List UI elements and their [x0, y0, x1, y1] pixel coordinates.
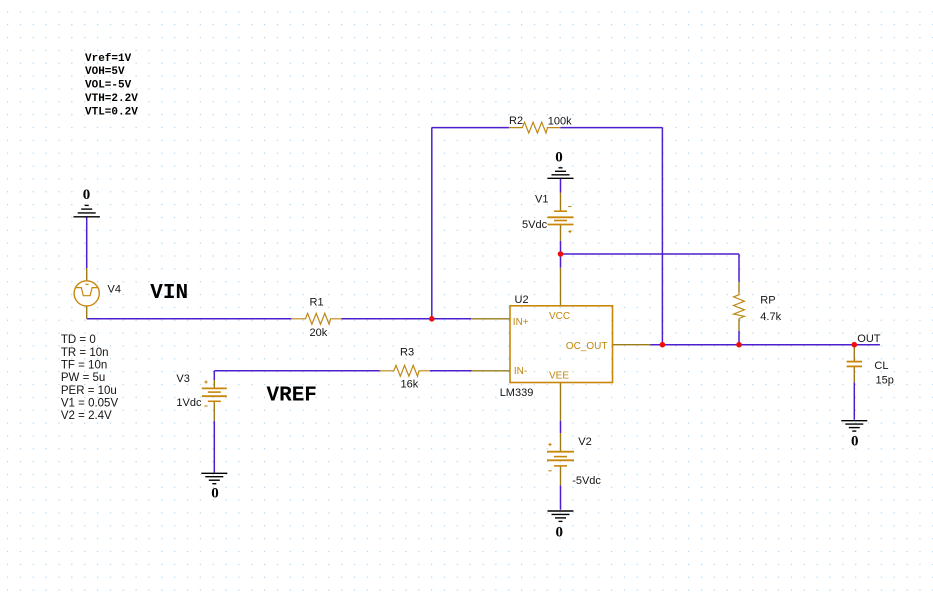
svg-text:15p: 15p: [876, 374, 894, 386]
svg-text:VCC: VCC: [549, 311, 570, 322]
svg-text:PER = 10u: PER = 10u: [61, 385, 117, 397]
svg-text:TF = 10n: TF = 10n: [61, 360, 107, 372]
svg-text:V1: V1: [535, 193, 548, 205]
svg-text:V2 = 2.4V: V2 = 2.4V: [61, 410, 112, 422]
svg-text:4.7k: 4.7k: [760, 311, 781, 323]
svg-text:5Vdc: 5Vdc: [522, 219, 548, 231]
svg-text:VOL=-5V: VOL=-5V: [85, 80, 132, 92]
svg-text:100k: 100k: [548, 115, 572, 127]
svg-text:V4: V4: [108, 284, 121, 296]
svg-text:V2: V2: [578, 436, 591, 448]
svg-text:V3: V3: [176, 373, 189, 385]
svg-text:Vref=1V: Vref=1V: [85, 53, 132, 65]
svg-text:20k: 20k: [310, 327, 328, 339]
svg-text:R1: R1: [310, 296, 324, 308]
svg-text:VIN: VIN: [150, 282, 188, 305]
svg-text:1Vdc: 1Vdc: [176, 397, 202, 409]
svg-text:VTH=2.2V: VTH=2.2V: [85, 93, 138, 105]
svg-text:IN+: IN+: [513, 317, 529, 328]
svg-text:-5Vdc: -5Vdc: [572, 475, 601, 487]
svg-text:0: 0: [555, 149, 563, 165]
svg-text:IN-: IN-: [514, 366, 527, 377]
svg-text:VTL=0.2V: VTL=0.2V: [85, 106, 138, 118]
svg-text:R2: R2: [509, 115, 523, 127]
svg-text:16k: 16k: [401, 378, 419, 390]
svg-text:VEE: VEE: [549, 370, 569, 381]
svg-text:RP: RP: [760, 295, 775, 307]
svg-text:LM339: LM339: [500, 387, 534, 399]
svg-text:OC_OUT: OC_OUT: [566, 341, 608, 352]
svg-text:0: 0: [211, 485, 219, 501]
svg-text:0: 0: [83, 187, 91, 203]
svg-text:TD = 0: TD = 0: [61, 334, 96, 346]
svg-text:0: 0: [851, 434, 859, 450]
svg-text:CL: CL: [874, 360, 888, 372]
svg-text:PW = 5u: PW = 5u: [61, 372, 105, 384]
svg-text:OUT: OUT: [857, 333, 881, 345]
svg-text:R3: R3: [400, 346, 414, 358]
svg-text:0: 0: [556, 525, 564, 541]
svg-text:VREF: VREF: [267, 384, 317, 407]
svg-text:V1 = 0.05V: V1 = 0.05V: [61, 398, 119, 410]
svg-text:U2: U2: [515, 294, 529, 306]
svg-text:TR = 10n: TR = 10n: [61, 347, 109, 359]
svg-text:VOH=5V: VOH=5V: [85, 66, 125, 78]
